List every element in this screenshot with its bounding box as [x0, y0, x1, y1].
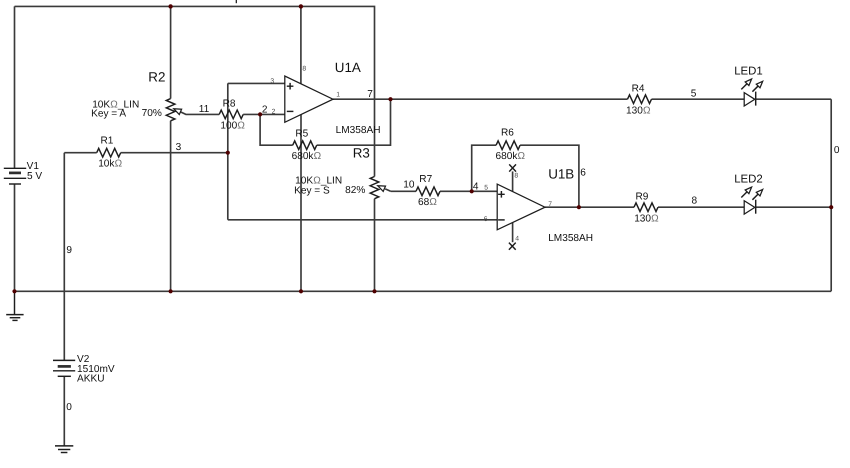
junction node 7 [388, 97, 392, 101]
svg-text:7: 7 [367, 89, 373, 100]
junction rail pin4 [299, 289, 303, 293]
wire R6 feedback left [472, 145, 496, 191]
U1B minus sign [498, 219, 505, 221]
svg-text:LED1: LED1 [734, 66, 763, 78]
wire LED1 to right corner [756, 98, 832, 100]
svg-text:2: 2 [262, 105, 268, 116]
svg-text:5: 5 [691, 88, 697, 99]
wire node 3 vertical [227, 83, 229, 219]
wire bottom ground rail [15, 290, 832, 292]
junction rail R3 [372, 289, 376, 293]
U1A plus sign [287, 83, 294, 90]
resistor R4 [628, 95, 652, 104]
svg-text:82%: 82% [345, 185, 365, 196]
svg-text:R6: R6 [501, 128, 514, 139]
svg-text:10: 10 [403, 180, 415, 191]
junction top rail R2 [168, 4, 172, 8]
svg-text:100Ω: 100Ω [220, 121, 245, 132]
wire R7 to U1B plus input [440, 190, 497, 192]
svg-text:AKKU: AKKU [77, 374, 105, 385]
battery V2 [53, 360, 75, 376]
svg-text:LM358AH: LM358AH [548, 233, 593, 244]
wire R5 feedback right [317, 99, 391, 145]
svg-text:0: 0 [66, 402, 72, 413]
wire R5 feedback left [260, 114, 293, 145]
resistor R1 [97, 148, 121, 157]
svg-text:5 V: 5 V [27, 171, 42, 182]
wire R2 bottom [170, 121, 172, 292]
svg-text:680kΩ: 680kΩ [496, 151, 526, 162]
svg-text:U1B: U1B [548, 166, 574, 181]
battery V1 [4, 168, 26, 184]
svg-text:3: 3 [270, 78, 274, 85]
svg-text:R9: R9 [636, 191, 649, 202]
wire R6 feedback right [520, 145, 579, 207]
svg-text:LM358AH: LM358AH [336, 125, 381, 136]
wire node 10 horizontal [391, 190, 416, 192]
svg-text:3: 3 [176, 142, 182, 153]
wire LED2 to right vertical [756, 206, 832, 208]
svg-text:R5: R5 [295, 129, 308, 140]
svg-text:10kΩ: 10kΩ [98, 159, 122, 170]
svg-text:9: 9 [66, 245, 72, 256]
svg-text:680kΩ: 680kΩ [292, 151, 322, 162]
wire U1A plus input [228, 82, 285, 84]
svg-text:8: 8 [514, 172, 518, 179]
junction node 2 [258, 112, 262, 116]
resistor R8 [219, 110, 243, 119]
wire U1B output to R9 [545, 206, 634, 208]
svg-text:70%: 70% [142, 108, 162, 119]
svg-text:1: 1 [336, 92, 340, 99]
svg-text:68Ω: 68Ω [418, 197, 437, 208]
LED1 [741, 79, 762, 106]
wire V2 bottom [63, 377, 65, 446]
svg-text:7: 7 [548, 201, 552, 208]
ground (V1) [6, 291, 23, 320]
wire net 0 right vertical [830, 99, 832, 291]
junction rail V1 [12, 289, 16, 293]
svg-text:8: 8 [692, 195, 698, 206]
svg-text:11: 11 [199, 104, 210, 115]
node 1 label (clipped at top) [235, 0, 237, 3]
svg-text:5: 5 [484, 184, 488, 191]
junction rail R2 [169, 289, 173, 293]
wire U1A pin4 to ground rail [300, 114, 302, 291]
ground (V2) [55, 446, 73, 453]
wire R2 top [170, 6, 172, 98]
svg-text:0: 0 [834, 145, 840, 156]
wire node 9 vertical [63, 153, 65, 360]
wire U1B pin4 stub [512, 222, 514, 242]
wire node 6 horizontal [228, 219, 497, 221]
wire R8 to U1A minus input [243, 113, 285, 115]
wire U1A pin8 to rail [300, 6, 302, 84]
wire V1 top [14, 6, 16, 168]
wire R4 to LED1 [652, 98, 745, 100]
resistor R6 [496, 141, 520, 150]
svg-text:R1: R1 [101, 136, 114, 147]
U1A minus sign [287, 110, 294, 112]
X mark U1B pin 8 [509, 164, 516, 171]
junction node 0 LED2 [829, 205, 833, 209]
potentiometer R3 [370, 177, 379, 199]
junction node 4 [470, 189, 474, 193]
svg-text:2: 2 [272, 109, 276, 116]
wire R9 to LED2 [658, 206, 744, 208]
junction node 3 [226, 151, 230, 155]
wire U1B pin8 stub [512, 171, 514, 191]
svg-text:R4: R4 [632, 83, 645, 94]
wire node 3 horizontal R1 to junction [121, 152, 228, 154]
svg-text:R2: R2 [148, 70, 165, 85]
wire node 10 wiper diagonal [385, 189, 390, 191]
svg-text:8: 8 [302, 66, 306, 73]
wire node 11 wiper to R8 [181, 112, 220, 115]
LED2 [741, 187, 762, 214]
wire V1 bottom [14, 184, 16, 291]
U1B plus sign [498, 191, 505, 198]
svg-text:130Ω: 130Ω [626, 105, 651, 116]
svg-text:6: 6 [580, 167, 586, 178]
junction node 6 output [577, 205, 581, 209]
op-amp U1A [285, 76, 333, 122]
resistor R7 [416, 187, 440, 196]
junction top rail pin8 [299, 4, 303, 8]
svg-text:LED2: LED2 [734, 174, 763, 186]
wire net 7 output to R4 [333, 98, 628, 100]
wire R3 bottom to ground rail [374, 199, 376, 292]
op-amp U1B [497, 184, 545, 230]
X mark U1B pin 4 [509, 243, 516, 250]
svg-text:4: 4 [515, 236, 519, 243]
svg-text:Key = A: Key = A [91, 109, 126, 120]
svg-text:6: 6 [484, 216, 488, 223]
resistor R5 [293, 141, 317, 150]
svg-text:Key = S: Key = S [294, 186, 330, 197]
potentiometer R2 [166, 99, 175, 121]
svg-text:U1A: U1A [335, 60, 361, 75]
svg-text:R7: R7 [419, 174, 432, 185]
resistor R9 [634, 203, 658, 212]
wiper arrow R3 [378, 186, 386, 192]
wiper arrow R2 [174, 109, 182, 115]
svg-text:130Ω: 130Ω [634, 213, 659, 224]
wire node 3 horizontal left of R1 [64, 152, 96, 154]
wire net1 top rail [15, 6, 375, 176]
svg-text:R3: R3 [353, 146, 370, 161]
svg-text:R8: R8 [223, 98, 236, 109]
svg-text:4: 4 [473, 181, 479, 192]
